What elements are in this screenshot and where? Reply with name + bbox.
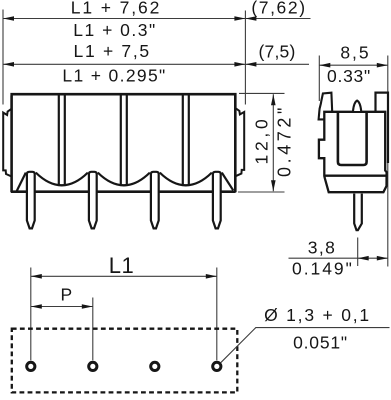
left bottom chamfer: [17, 173, 26, 191]
side view solder pin: [354, 194, 362, 231]
arrow down 12,0: [271, 180, 276, 191]
scallop arc 3: [160, 173, 212, 186]
pin 1 front: [27, 172, 35, 229]
svg-text:L1: L1: [109, 253, 134, 278]
arrow right L1: [206, 274, 217, 279]
svg-text:(7,62): (7,62): [251, 0, 306, 18]
arrow (7,5): [245, 62, 256, 67]
arrow left 3,8: [358, 256, 369, 261]
arrow right L1+7,5: [234, 62, 245, 67]
pin 2 front: [89, 172, 97, 229]
arrow left P: [31, 304, 42, 309]
dimension 8,5 extension line left: [318, 56, 320, 102]
arrow left L1: [31, 274, 42, 279]
dimension P extension line: [92, 298, 94, 361]
dimension L1 extension line left: [30, 268, 32, 361]
dimension line 8,5: [319, 64, 388, 66]
side view slot U: [338, 112, 367, 166]
side view body: [319, 112, 387, 192]
arrow (7,62): [245, 16, 256, 21]
arrow right P: [82, 304, 93, 309]
svg-text:(7,5): (7,5): [259, 41, 296, 61]
dimension line P: [31, 306, 93, 308]
dimension line L1+7,5: [3, 63, 309, 65]
pin 3 front: [151, 172, 159, 229]
arrow left 8,5: [319, 63, 330, 68]
svg-text:P: P: [61, 284, 73, 304]
hole 1: [27, 362, 35, 370]
dimension L1+7,62 extension line left: [2, 10, 4, 105]
side view right ear: [376, 93, 389, 163]
right flange tab: [236, 108, 245, 176]
hole 3: [151, 362, 159, 370]
side view latch left: [319, 93, 333, 120]
front view body outline: [10, 94, 236, 192]
dimension line 12,0: [272, 94, 274, 191]
right bottom chamfer: [222, 173, 233, 191]
svg-text:L1 + 7,5: L1 + 7,5: [74, 41, 151, 61]
pin 4 front: [213, 172, 221, 229]
svg-text:L1 + 7,62: L1 + 7,62: [71, 0, 162, 18]
arrow right L1+7,62: [234, 16, 245, 21]
dimension 12,0 extension line bottom: [238, 191, 285, 193]
scallop arc 2: [98, 173, 150, 186]
dimension L1+7,62 extension line right: [244, 11, 246, 105]
svg-text:L1 + 0.3": L1 + 0.3": [73, 20, 156, 40]
svg-text:0.33": 0.33": [327, 66, 371, 86]
svg-text:0.472": 0.472": [275, 104, 295, 177]
footprint dashed outline: [12, 329, 238, 393]
side view base line: [325, 175, 386, 177]
arrow up 12,0: [271, 94, 276, 105]
dimension line L1+7,62: [3, 18, 311, 20]
divider wall 2: [120, 96, 122, 185]
svg-text:12,0: 12,0: [252, 116, 272, 165]
svg-text:L1 + 0.295": L1 + 0.295": [62, 65, 166, 85]
svg-text:3,8: 3,8: [308, 238, 337, 258]
dimension line 3,8: [289, 257, 388, 259]
hole 2: [89, 362, 97, 370]
dimension 8,5 / 3,8 extension line right: [387, 56, 389, 267]
scallop arc 1: [36, 173, 88, 186]
left flange tab: [3, 109, 11, 177]
svg-text:8,5: 8,5: [340, 43, 370, 63]
dimension 3,8 extension line pin: [357, 238, 359, 267]
arrow right 3,8: [377, 256, 388, 261]
divider wall 1: [58, 96, 60, 185]
side view pin tip top: [353, 101, 361, 111]
arrow right 8,5: [377, 63, 388, 68]
svg-text:0.051": 0.051": [293, 332, 348, 352]
divider wall 3: [182, 96, 184, 185]
dimension 12,0 extension line top: [239, 92, 285, 94]
dimension line L1: [31, 275, 217, 277]
svg-text:0.149": 0.149": [292, 258, 354, 278]
arrow left L1+7,5: [3, 62, 14, 67]
hole 4: [213, 362, 221, 370]
arrow left L1+7,62: [3, 16, 14, 21]
dimension L1 extension line right: [216, 268, 218, 361]
leader line hole diameter: [221, 328, 390, 363]
svg-text:Ø 1,3 + 0,1: Ø 1,3 + 0,1: [264, 305, 371, 325]
